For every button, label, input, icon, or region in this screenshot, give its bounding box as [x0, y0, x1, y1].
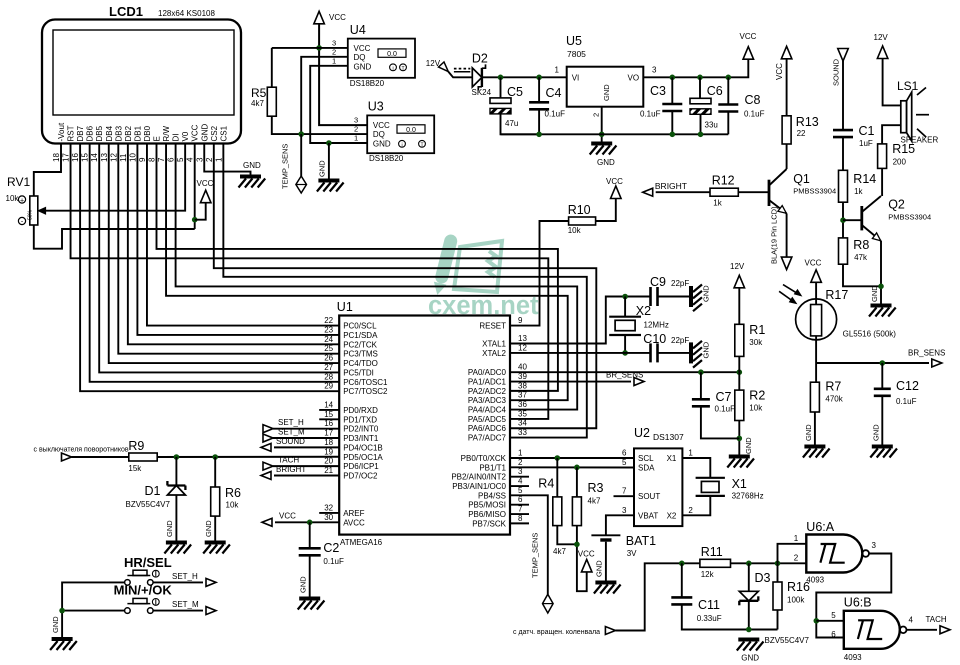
photoresistor R17 — [796, 299, 837, 340]
svg-text:DB4: DB4 — [105, 125, 114, 141]
resistor R16 — [773, 582, 782, 610]
svg-text:C3: C3 — [650, 84, 666, 98]
svg-text:16: 16 — [71, 153, 80, 162]
svg-text:2: 2 — [332, 48, 336, 57]
svg-text:R2: R2 — [749, 389, 765, 403]
BRIGHT net arrow at R12 — [643, 188, 653, 196]
temperature sensor U4 box — [348, 39, 415, 78]
TEMP_SENS net marker at U1 — [543, 594, 554, 613]
svg-text:6: 6 — [622, 449, 627, 458]
wire BRIGHT arrow to R12 — [656, 191, 710, 193]
temperature sensor U3 box — [367, 115, 434, 153]
wire SET_M to U1 — [273, 437, 339, 439]
svg-text:DB6: DB6 — [86, 125, 95, 141]
svg-text:i: i — [401, 142, 402, 148]
junction X2 top — [622, 294, 628, 300]
svg-text:PA2/ADC2: PA2/ADC2 — [468, 387, 507, 396]
X1 label — [732, 477, 747, 491]
12V symbol above LS1 — [874, 33, 889, 59]
svg-text:47u: 47u — [505, 119, 518, 128]
wire LCD V0 to RV1 wiper — [46, 144, 186, 211]
resistor R3 — [572, 497, 581, 526]
svg-text:GND: GND — [318, 160, 327, 177]
svg-text:50%: 50% — [28, 209, 34, 220]
turn switch input label — [34, 447, 129, 454]
wire C8 bottom — [727, 112, 729, 135]
svg-text:C1: C1 — [859, 124, 875, 138]
junction R4 top — [555, 455, 561, 461]
U4 pin 1 number — [332, 57, 336, 66]
svg-text:VCC: VCC — [197, 179, 214, 188]
D2 label — [472, 52, 488, 66]
U1 pin 40 number — [518, 363, 527, 372]
svg-text:1uF: 1uF — [859, 139, 873, 148]
U1 pin 28 name PC6/TOSC1 — [343, 378, 388, 387]
U1 pin 15 number — [324, 410, 333, 419]
C6 value 33u — [705, 121, 718, 130]
resistor R11 — [700, 559, 731, 567]
LCD1 pin name DB7 — [76, 125, 85, 141]
SET_M label at button — [172, 600, 199, 609]
BLA net arrow (to LCD backlight) — [781, 257, 792, 270]
R9 label — [128, 439, 144, 453]
U1 AVCC pin name — [343, 518, 365, 527]
wire SET_H to U1 — [273, 428, 339, 430]
U3 label — [368, 100, 384, 114]
U1 pin 29 name PC7/TOSC2 — [343, 387, 388, 396]
U1 pin 18 number — [324, 438, 333, 447]
U1 pin 28 number — [324, 372, 333, 381]
svg-text:XTAL1: XTAL1 — [482, 340, 506, 349]
12V input arrow — [439, 62, 449, 72]
C11 label — [698, 598, 720, 612]
svg-text:10k: 10k — [568, 226, 582, 235]
svg-text:VCC: VCC — [279, 511, 296, 520]
svg-text:1: 1 — [354, 134, 358, 143]
svg-text:DB2: DB2 — [124, 125, 133, 141]
U1 pin 14 name PD0/RXD — [343, 406, 378, 415]
crystal X1 — [696, 478, 725, 496]
U1 pin 17 name PD3/INT1 — [343, 434, 379, 443]
U1 type ATMEGA16 — [340, 538, 383, 547]
svg-text:R7: R7 — [825, 380, 841, 394]
junction C11 top — [679, 561, 685, 567]
wire C5 bottom to rail — [501, 114, 540, 134]
wire C1 to R14 — [842, 137, 844, 170]
svg-text:R6: R6 — [225, 486, 241, 500]
svg-text:BZV55C4V7: BZV55C4V7 — [126, 500, 171, 509]
U1 pin 3 number — [518, 467, 523, 476]
BRIGHT label at R12 — [655, 181, 687, 191]
U1 pin 19 number — [324, 447, 333, 456]
wire XTAL1 to crystal net — [510, 297, 651, 344]
wire LCD GND pin to ground — [204, 144, 250, 175]
svg-text:37: 37 — [518, 391, 527, 400]
junction R3 R4 VCC — [574, 542, 580, 548]
wire LCD DB1 to U1 PC1 — [137, 144, 339, 335]
pushbutton HR/SEL — [125, 570, 160, 585]
svg-text:470k: 470k — [825, 395, 843, 404]
U1 pin 7 number — [518, 505, 523, 514]
LCD1 pin name RST — [67, 125, 76, 141]
junction ground rail — [746, 627, 752, 633]
svg-text:30: 30 — [324, 513, 333, 522]
LCD1 pin name R/W — [162, 126, 171, 142]
U2 label — [634, 426, 650, 440]
svg-text:U3: U3 — [368, 100, 384, 114]
svg-text:GND: GND — [870, 285, 879, 302]
svg-text:DI: DI — [172, 134, 181, 142]
ground below Q2 — [869, 285, 896, 317]
svg-text:0.1uF: 0.1uF — [896, 397, 917, 406]
svg-text:2: 2 — [794, 554, 799, 563]
svg-text:AVCC: AVCC — [343, 518, 365, 527]
svg-text:200: 200 — [893, 158, 907, 167]
wire LCD CS1 to U1 PA7 — [223, 144, 586, 438]
svg-text:PD1/TXD: PD1/TXD — [343, 415, 377, 424]
U5 VI pin name — [572, 74, 580, 83]
wire R5 bottom to DQ net — [272, 116, 301, 134]
capacitor C12 — [874, 389, 891, 396]
C4 value 0.1uF — [545, 110, 566, 119]
U2 pin 3 number — [622, 506, 627, 515]
U1 pin 2 number — [518, 458, 523, 467]
SET_H arrow into PD2 — [263, 418, 304, 433]
svg-text:GND: GND — [741, 654, 759, 663]
wire VCC to AVCC — [275, 521, 339, 523]
svg-text:34: 34 — [518, 419, 527, 428]
wire VCC rail to U3 pin3 — [319, 24, 367, 125]
U1 AREF stub — [319, 512, 339, 514]
svg-text:PA5/ADC5: PA5/ADC5 — [468, 415, 507, 424]
wire C2 bottom — [309, 555, 311, 597]
svg-text:GND: GND — [702, 285, 711, 302]
LCD1 pin name CS1 — [219, 125, 228, 141]
U1 pin 6 number — [518, 495, 523, 504]
svg-text:R5: R5 — [251, 86, 267, 100]
wire C6 bottom — [700, 114, 702, 134]
U3 pin 3 number — [354, 116, 358, 125]
U1 pin 6 stub — [510, 504, 529, 506]
U1 pin 18 name PD4/OC1B — [343, 443, 383, 452]
VCC symbol above R13 — [775, 46, 792, 80]
BR_SENS label right — [908, 349, 945, 358]
svg-text:5: 5 — [518, 486, 523, 495]
junction C4 bottom — [536, 132, 542, 138]
svg-text:SOUND: SOUND — [276, 437, 305, 446]
wire R16 to rail — [777, 610, 779, 630]
svg-text:E: E — [153, 136, 162, 141]
speaker LS1 — [901, 88, 929, 142]
wire R10 to U1 RESET — [510, 221, 569, 326]
transistor Q2 PMBSS3904 — [862, 196, 881, 241]
wire U3 DQ row — [301, 133, 367, 135]
U1 pin 26 name PC4/TDO — [343, 359, 378, 368]
wire R1 to junction — [738, 356, 740, 372]
wire LCD RST to U1 PA5 — [71, 144, 549, 419]
wire R9 to U1 PD5 — [157, 456, 339, 458]
svg-text:PB6/MISO: PB6/MISO — [468, 510, 506, 519]
svg-text:7: 7 — [622, 487, 627, 496]
wire U1 PB1 to U2 SDA — [510, 466, 634, 468]
crystal X2 — [609, 317, 641, 335]
svg-text:C2: C2 — [323, 541, 339, 555]
svg-text:R12: R12 — [712, 174, 735, 188]
LCD1 pin number 9 — [138, 157, 147, 162]
svg-text:PA7/ADC7: PA7/ADC7 — [468, 434, 507, 443]
wire LCD DI to U1 PA4 — [176, 144, 578, 410]
LS1 type SPEAKER — [901, 136, 939, 145]
svg-text:10: 10 — [128, 153, 137, 162]
ground below R2 — [727, 437, 754, 468]
wire VCC to R17 — [815, 283, 817, 305]
zener diode D3 — [739, 591, 758, 605]
svg-text:VI: VI — [572, 74, 580, 83]
svg-text:3V: 3V — [627, 549, 637, 558]
C9 label — [650, 275, 666, 289]
svg-text:33: 33 — [518, 428, 527, 437]
U2 type DS1307 — [653, 432, 684, 442]
svg-text:14: 14 — [90, 153, 99, 162]
wire R17 to BR_SENS row — [815, 336, 817, 382]
svg-text:12V: 12V — [874, 33, 889, 42]
svg-text:VCC: VCC — [354, 44, 371, 53]
svg-text:1k: 1k — [713, 199, 722, 208]
svg-text:10k: 10k — [749, 404, 763, 413]
wire U2 X2 to crystal — [682, 496, 710, 515]
svg-text:PA0/ADC0: PA0/ADC0 — [468, 368, 507, 377]
svg-text:11: 11 — [119, 153, 128, 162]
svg-text:AREF: AREF — [343, 509, 364, 518]
junction C6 bottom — [698, 132, 704, 138]
LCD1 pin number 16 — [71, 153, 80, 162]
C9 value 22pF — [671, 279, 689, 288]
ground below C12 — [870, 424, 897, 458]
junction GND net U3 U4 — [326, 140, 332, 146]
svg-text:D2: D2 — [472, 52, 488, 66]
wire R10 right to VCC — [596, 199, 616, 221]
svg-text:1: 1 — [688, 449, 693, 458]
U1 XTAL1 pin name — [482, 340, 506, 349]
RV1 wiper arrow — [39, 208, 46, 214]
Q1 type PMBSS3904 — [793, 187, 836, 196]
svg-text:U2: U2 — [634, 426, 650, 440]
resistor R4 — [553, 497, 562, 526]
U1 AVCC pin number 30 — [324, 513, 333, 522]
svg-text:PD7/OC2: PD7/OC2 — [343, 471, 378, 480]
svg-text:21: 21 — [324, 466, 333, 475]
svg-text:100k: 100k — [787, 596, 805, 605]
svg-text:PD5/OC1A: PD5/OC1A — [343, 453, 383, 462]
TEMP_SENS net marker at sensors — [296, 176, 307, 193]
svg-text:25: 25 — [324, 344, 333, 353]
R14 label — [853, 172, 876, 186]
wire MIN to SET_M arrow — [153, 610, 203, 612]
wire LCD DB3 to U1 PC3 — [118, 144, 339, 354]
LCD1 pin number 11 — [119, 153, 128, 162]
VCC symbol above R17 — [805, 259, 822, 283]
wire LCD DB2 to U1 PC2 — [128, 144, 339, 345]
wire Q1 emitter to BLA arrow — [786, 214, 788, 257]
LCD1 pin number 15 — [81, 153, 90, 162]
RV1 value 10k — [6, 194, 20, 203]
svg-text:0.1uF: 0.1uF — [323, 557, 344, 566]
U1 pin 38 name PA2/ADC2 — [468, 387, 507, 396]
LCD1 pin name GND — [200, 124, 209, 142]
svg-text:0.33uF: 0.33uF — [697, 614, 722, 623]
svg-text:PD6/ICP1: PD6/ICP1 — [343, 462, 379, 471]
capacitor C7 — [692, 399, 710, 406]
svg-text:47k: 47k — [854, 253, 868, 262]
wire R5 top — [271, 48, 273, 87]
SET_H arrow at button — [206, 578, 216, 586]
watermark cxem.net text — [428, 292, 539, 320]
D3 type BZV55C4V7 — [765, 636, 810, 645]
svg-text:PB7/SCK: PB7/SCK — [472, 519, 506, 528]
U3 pin 1 number — [354, 134, 358, 143]
svg-text:DB1: DB1 — [133, 125, 142, 141]
svg-text:12: 12 — [109, 153, 118, 162]
U1 pin 36 name PA4/ADC4 — [468, 406, 507, 415]
svg-text:R4: R4 — [538, 477, 554, 491]
wire SOUND to C1 — [842, 61, 844, 130]
C2 value 0.1uF — [323, 557, 344, 566]
svg-text:T: T — [420, 142, 423, 148]
wire C6 top — [699, 77, 701, 98]
C10 label — [643, 332, 666, 346]
LCD1 pin number 1 — [214, 157, 223, 162]
svg-text:TEMP_SENS: TEMP_SENS — [281, 144, 290, 189]
svg-text:SET_H: SET_H — [172, 572, 198, 581]
wire VCC to R13 — [786, 59, 788, 116]
svg-text:18: 18 — [52, 153, 61, 162]
wire R7 to ground — [814, 412, 816, 445]
LS1 label — [897, 79, 919, 93]
U4 indicator circles — [390, 64, 407, 72]
R10 label — [568, 203, 591, 217]
LCD1 pin number 7 — [157, 157, 166, 162]
C5 label — [507, 85, 523, 99]
SET_M arrow into PD3 — [263, 428, 305, 443]
svg-text:22: 22 — [797, 129, 806, 138]
LCD1 pin number 10 — [128, 153, 137, 162]
U1 XTAL1 pin number 13 — [518, 334, 527, 343]
D1 label — [145, 484, 161, 498]
svg-text:-Vout: -Vout — [57, 122, 66, 141]
svg-text:9: 9 — [518, 316, 523, 325]
svg-text:RST: RST — [67, 125, 76, 141]
wire LCD DB0 to U1 PC0 — [147, 144, 339, 326]
capacitor C11 — [671, 597, 692, 604]
svg-text:8: 8 — [148, 157, 157, 162]
R14 value 1k — [854, 187, 863, 196]
thick-wire marks at 12V input — [454, 69, 470, 72]
wire LCD DB6 to U1 PC6 — [90, 144, 340, 382]
U3 VCC pin name — [373, 121, 390, 130]
wire D1 to ground — [175, 495, 177, 541]
svg-text:SCL: SCL — [638, 454, 654, 463]
resistor R8 — [839, 238, 848, 264]
svg-text:MIN/+/OK: MIN/+/OK — [114, 583, 173, 598]
svg-text:LCD1: LCD1 — [109, 4, 143, 19]
svg-text:3: 3 — [622, 506, 627, 515]
svg-text:14: 14 — [324, 400, 333, 409]
junction VCC-R5-U4 — [316, 45, 322, 51]
wire U5 GND pin down — [601, 107, 603, 142]
svg-text:DB3: DB3 — [114, 125, 123, 141]
svg-text:PMBSS3904: PMBSS3904 — [793, 187, 836, 196]
zener diode D1 — [167, 481, 185, 495]
U2 SCL pin name — [638, 454, 654, 463]
wire U4 pin3 row — [272, 47, 348, 49]
U1 pin 39 name PA1/ADC1 — [468, 378, 507, 387]
wire C11 bottom to ground rail — [682, 604, 778, 629]
voltage regulator U5 box — [567, 67, 644, 107]
svg-text:128x64 KS0108: 128x64 KS0108 — [158, 9, 215, 18]
resistor R9 — [129, 453, 157, 461]
D2 type SK24 — [472, 88, 492, 97]
wire RV1 bottom to LCD VCC pin — [34, 225, 195, 249]
svg-text:R/W: R/W — [162, 126, 171, 142]
svg-text:с датч. вращен. коленвала: с датч. вращен. коленвала — [513, 629, 600, 636]
wire XTAL2 to C10 — [510, 352, 651, 354]
ground below D3 — [737, 640, 764, 663]
U1 pin 33 number — [518, 428, 527, 437]
svg-text:BR_SENS: BR_SENS — [606, 371, 643, 380]
VCC arrow at AVCC — [262, 511, 296, 526]
U3 display — [397, 125, 425, 134]
LCD1 pin name DB1 — [133, 125, 142, 141]
svg-text:SK24: SK24 — [472, 88, 492, 97]
svg-text:2: 2 — [688, 506, 693, 515]
U6:A pin1 number — [794, 534, 799, 543]
svg-text:4: 4 — [909, 616, 914, 625]
svg-text:SPEAKER: SPEAKER — [901, 136, 939, 145]
U6:B type 4093 — [844, 653, 862, 662]
svg-text:VCC: VCC — [606, 177, 623, 186]
wire R8 bottom to emitter net — [843, 264, 881, 286]
R4 label — [538, 477, 554, 491]
R12 value 1k — [713, 199, 722, 208]
C11 value 0.33uF — [697, 614, 722, 623]
svg-text:0.0: 0.0 — [406, 127, 416, 134]
LCD1 pin name DB0 — [143, 125, 152, 141]
U3 pin 2 number — [354, 125, 358, 134]
junction C2 branch — [307, 520, 313, 526]
VCC symbol above U4 — [314, 11, 346, 23]
R15 label — [892, 142, 915, 156]
junction LCD VCC — [192, 217, 198, 223]
svg-text:RESET: RESET — [479, 322, 506, 331]
svg-text:PC4/TDO: PC4/TDO — [343, 359, 378, 368]
svg-text:PB2/AIN0/INT2: PB2/AIN0/INT2 — [451, 473, 506, 482]
svg-text:VCC: VCC — [775, 63, 784, 80]
svg-text:10k: 10k — [226, 501, 240, 510]
svg-text:PC6/TOSC1: PC6/TOSC1 — [343, 378, 388, 387]
LCD1 pin number 4 — [186, 157, 195, 162]
svg-text:18: 18 — [324, 438, 333, 447]
svg-text:PB3/AIN1/OC0: PB3/AIN1/OC0 — [452, 482, 506, 491]
svg-text:PMBSS3904: PMBSS3904 — [888, 213, 931, 222]
U1 pin 26 number — [324, 354, 333, 363]
ground at C10 — [691, 341, 711, 368]
wire C4 bottom — [538, 109, 540, 134]
wire D1 top — [175, 457, 177, 486]
BAT1 label — [626, 534, 656, 548]
wire C7 bottom — [701, 406, 739, 438]
svg-text:RV1: RV1 — [7, 175, 30, 189]
svg-text:15: 15 — [324, 410, 333, 419]
